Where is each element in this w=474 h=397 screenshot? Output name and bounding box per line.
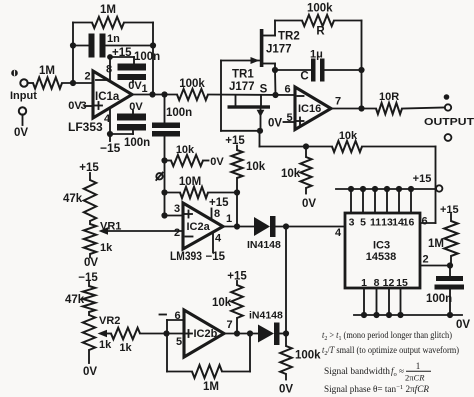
svg-text:0V: 0V: [68, 100, 82, 112]
svg-text:8: 8: [214, 208, 220, 220]
svg-text:+15: +15: [440, 204, 459, 216]
svg-text:100k: 100k: [179, 78, 205, 90]
svg-text:4: 4: [335, 227, 342, 239]
svg-text:8: 8: [106, 64, 112, 76]
svg-text:0V: 0V: [302, 198, 316, 210]
svg-text:100n: 100n: [124, 137, 150, 149]
svg-text:C: C: [300, 71, 308, 83]
svg-text:4: 4: [215, 233, 222, 245]
svg-text:1: 1: [416, 361, 421, 371]
svg-text:IC2a: IC2a: [187, 221, 211, 233]
svg-text:7: 7: [335, 96, 341, 108]
svg-text:16: 16: [403, 217, 415, 229]
svg-text:Input: Input: [10, 90, 37, 102]
svg-text:IN4148: IN4148: [247, 239, 281, 251]
svg-text:1M: 1M: [100, 4, 116, 16]
svg-text:+15: +15: [209, 197, 229, 209]
svg-text:8: 8: [374, 277, 380, 289]
svg-text:5: 5: [176, 336, 182, 348]
svg-text:12: 12: [383, 277, 395, 289]
svg-text:1n: 1n: [107, 33, 120, 45]
svg-text:10M: 10M: [179, 176, 201, 188]
svg-text:TR1: TR1: [232, 69, 254, 81]
svg-text:47k: 47k: [63, 193, 83, 205]
svg-text:7: 7: [226, 319, 232, 331]
svg-text:VR1: VR1: [100, 221, 121, 233]
svg-text:1μ: 1μ: [310, 49, 323, 61]
svg-text:5: 5: [360, 217, 366, 229]
svg-text:Signal phase θ= tan−1 2πfCR: Signal phase θ= tan−1 2πfCR: [324, 384, 429, 394]
svg-text:10R: 10R: [379, 91, 399, 103]
svg-text:100n: 100n: [426, 293, 452, 305]
svg-text:+15: +15: [413, 173, 432, 185]
svg-text:OUTPUT: OUTPUT: [424, 117, 474, 128]
svg-text:IC3: IC3: [373, 240, 390, 252]
svg-text:1: 1: [226, 213, 232, 225]
svg-text:−15: −15: [206, 251, 226, 263]
svg-text:6: 6: [284, 84, 290, 96]
svg-text:IC2b: IC2b: [194, 328, 218, 340]
svg-text:3: 3: [349, 217, 355, 229]
svg-text:0V: 0V: [83, 366, 97, 378]
svg-text:5: 5: [286, 112, 292, 124]
svg-text:4: 4: [104, 113, 111, 125]
svg-text:100k: 100k: [295, 350, 321, 362]
svg-text:LM393: LM393: [170, 251, 202, 263]
svg-text:0V: 0V: [84, 257, 98, 269]
svg-text:LF353: LF353: [68, 120, 103, 134]
svg-text:+15: +15: [227, 271, 247, 283]
svg-text:VR2: VR2: [99, 315, 120, 327]
svg-text:−15: −15: [78, 272, 98, 284]
svg-text:10k: 10k: [246, 161, 266, 173]
svg-text:1k: 1k: [119, 342, 132, 354]
svg-text:11: 11: [370, 217, 381, 229]
svg-text:2: 2: [422, 254, 428, 266]
svg-text:6: 6: [421, 216, 427, 228]
svg-text:10k: 10k: [281, 168, 301, 180]
svg-text:100n: 100n: [134, 51, 160, 63]
svg-text:TR2: TR2: [278, 31, 300, 43]
svg-text:6: 6: [174, 310, 180, 322]
svg-text:J177: J177: [266, 44, 292, 56]
svg-text:0V: 0V: [279, 384, 293, 396]
svg-text:R: R: [316, 26, 325, 38]
svg-text:1M: 1M: [203, 381, 219, 393]
svg-text:−15: −15: [100, 141, 121, 155]
svg-text:0V: 0V: [210, 156, 224, 168]
svg-text:1: 1: [141, 83, 147, 95]
svg-text:100n: 100n: [166, 107, 192, 119]
svg-text:1M: 1M: [39, 65, 55, 77]
svg-text:iN4148: iN4148: [249, 310, 283, 322]
svg-text:1k: 1k: [100, 242, 113, 254]
svg-text:1k: 1k: [99, 339, 112, 351]
svg-text:10k: 10k: [176, 144, 195, 156]
svg-text:0V: 0V: [128, 80, 142, 92]
svg-text:0V: 0V: [129, 101, 143, 113]
svg-text:14538: 14538: [366, 251, 397, 263]
svg-text:3: 3: [174, 203, 180, 215]
svg-text:1: 1: [361, 277, 367, 289]
svg-text:+15: +15: [79, 162, 99, 174]
svg-text:2: 2: [84, 71, 90, 83]
svg-text:0V: 0V: [268, 118, 282, 130]
svg-text:Signal bandwidth: Signal bandwidth: [324, 366, 391, 376]
svg-text:10k: 10k: [339, 130, 358, 142]
svg-text:100k: 100k: [307, 3, 333, 15]
svg-text:47k: 47k: [65, 294, 85, 306]
svg-text:0V: 0V: [14, 127, 28, 139]
svg-text:+15: +15: [225, 135, 245, 147]
svg-text:2: 2: [174, 227, 180, 239]
svg-text:1M: 1M: [428, 238, 444, 250]
svg-text:10k: 10k: [212, 297, 232, 309]
svg-text:2πCR: 2πCR: [405, 373, 425, 383]
svg-text:IC16: IC16: [298, 103, 321, 115]
svg-text:J177: J177: [229, 81, 255, 93]
svg-text:S: S: [260, 84, 268, 96]
svg-text:15: 15: [396, 277, 408, 289]
svg-text:+15: +15: [112, 47, 132, 59]
svg-text:0V: 0V: [456, 319, 470, 331]
svg-text:IC1a: IC1a: [95, 91, 120, 103]
